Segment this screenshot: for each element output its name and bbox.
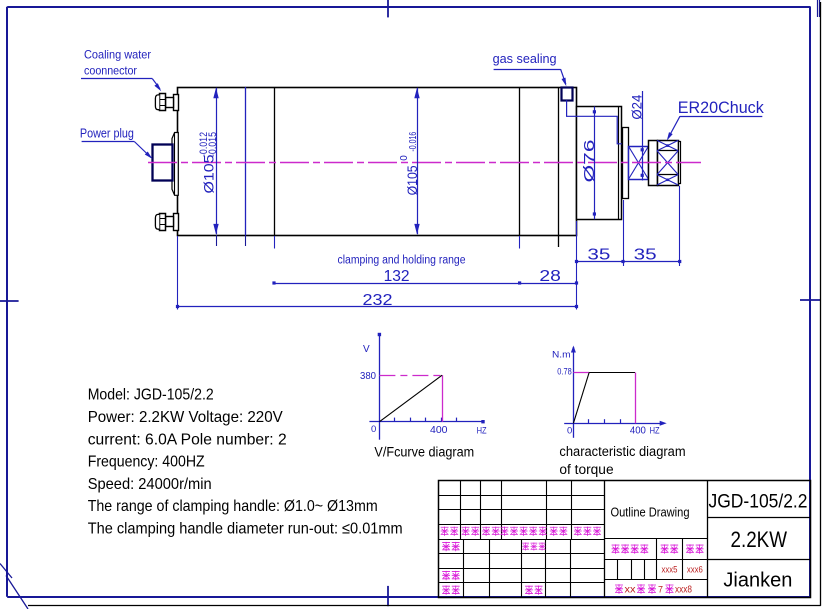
svg-text:Jianken: Jianken [723, 568, 792, 591]
bottom-left corner diagonal a [0, 564, 12, 579]
svg-text:xx: xx [625, 585, 636, 596]
dimension 132 line [274, 283, 520, 285]
svg-text:characteristic diagram: characteristic diagram [559, 444, 685, 459]
title grid hline [439, 509, 604, 511]
collet cross a [629, 147, 649, 180]
centerline axis [148, 162, 701, 164]
title header cjk row [441, 527, 449, 536]
title grid vline upper [571, 481, 573, 539]
cooling water connector fitting bottom [174, 214, 179, 231]
title row pizhun [525, 585, 533, 594]
leader ER20 chuck [680, 116, 762, 118]
collet section [629, 147, 649, 180]
left centering tick [0, 300, 19, 302]
svg-text:28: 28 [539, 268, 561, 285]
title grid vline lower [489, 539, 491, 597]
leader power plug [82, 141, 135, 143]
frame top border [7, 6, 810, 8]
torque y-axis [573, 347, 575, 438]
body end-cap line [558, 87, 560, 247]
top-right trim tick a [817, 0, 819, 17]
svg-text:35: 35 [587, 246, 610, 263]
svg-text:current: 6.0A Pole number: 2: current: 6.0A Pole number: 2 [88, 431, 287, 448]
title grid vline upper [480, 481, 482, 539]
title grid vline lower [463, 539, 465, 597]
svg-text:-0.015: -0.015 [207, 132, 219, 157]
svg-text:0.78: 0.78 [557, 367, 572, 378]
body section line blue [245, 87, 247, 235]
extension stub x274 [274, 236, 276, 249]
torque rising diagonal [573, 373, 589, 424]
VF x-axis [369, 421, 484, 423]
torque axis tick [588, 419, 590, 423]
title block outer [439, 481, 811, 598]
svg-text:clamping and holding range: clamping and holding range [338, 255, 466, 267]
svg-text:coonnector: coonnector [84, 63, 137, 77]
top centering tick [387, 0, 389, 17]
svg-text:xxx6: xxx6 [687, 565, 703, 576]
svg-text:Power: 2.2KW Voltage: 220V: Power: 2.2KW Voltage: 220V [88, 409, 283, 426]
middle zone hline1 [604, 538, 707, 540]
dimension dia105 right label [399, 132, 420, 196]
title grid hline [439, 582, 604, 584]
front cap cylinder [577, 107, 622, 220]
VF axis tick [410, 418, 412, 422]
svg-text:Coaling water: Coaling water [84, 47, 151, 61]
title grid vline lower [570, 539, 572, 597]
title grid vline upper [501, 481, 503, 539]
torque axis tick [604, 419, 606, 423]
weight cjk [661, 544, 669, 553]
VF magenta vertical 400Hz [442, 375, 444, 422]
motor body outline [178, 88, 577, 236]
gas sealing port [562, 88, 573, 101]
title grid hline [439, 495, 604, 497]
leader cooling water [81, 78, 152, 80]
VF magenta dashed 380 level [379, 375, 442, 377]
svg-text:35: 35 [634, 246, 657, 263]
svg-text:Outline Drawing: Outline Drawing [611, 505, 690, 520]
svg-text:HZ: HZ [477, 425, 487, 436]
gas passage line [567, 100, 622, 144]
title grid hline [439, 553, 604, 555]
svg-text:400: 400 [430, 425, 448, 436]
title grid hline [439, 524, 604, 526]
power plug block [153, 145, 173, 181]
svg-text:xxx8: xxx8 [675, 585, 692, 596]
title grid vline upper [546, 481, 548, 539]
svg-text:V/Fcurve diagram: V/Fcurve diagram [374, 445, 474, 460]
svg-text:Ø105: Ø105 [201, 154, 217, 193]
nut band line lower [657, 174, 678, 176]
frame bottom border [7, 596, 810, 598]
middle small cell vline [644, 559, 646, 579]
step ring [623, 128, 629, 199]
svg-text:380: 380 [360, 371, 376, 382]
VF axis tick [394, 418, 396, 422]
bottom paper edge line [28, 605, 821, 607]
dimension 28 line [520, 283, 577, 285]
top-right trim tick b [819, 0, 821, 17]
svg-text:The range of clamping handle:: The range of clamping handle: Ø1.0~ Ø13m… [88, 498, 378, 515]
dimension 35-35 line [577, 261, 680, 263]
collet cross b [629, 147, 649, 180]
nut middle band cross [657, 151, 678, 175]
frame right border [809, 7, 811, 597]
dimension 232 line [178, 306, 577, 308]
svg-text:Ø24: Ø24 [628, 94, 644, 119]
stage mark cjk [612, 544, 620, 553]
right zone hline2 [707, 559, 810, 561]
svg-text:0: 0 [567, 426, 572, 437]
title row shej [442, 542, 450, 551]
svg-text:xxx5: xxx5 [662, 565, 678, 576]
title grid hline [439, 568, 604, 570]
title grid vline lower [521, 539, 523, 597]
VF curve diagonal [379, 375, 442, 422]
torque magenta level left [573, 372, 589, 374]
title block divider 1 [604, 481, 606, 598]
middle small cell vline [631, 559, 633, 579]
svg-text:7: 7 [658, 585, 663, 595]
plug flange [172, 133, 178, 196]
svg-text:Model: JGD-105/2.2: Model: JGD-105/2.2 [88, 387, 214, 404]
nut body [658, 141, 679, 186]
dimension dia24 line [642, 91, 644, 181]
dimension dia24 label [628, 94, 644, 119]
stub below body at blue line [245, 235, 247, 246]
torque magenta vertical 400Hz [635, 373, 637, 424]
svg-text:The clamping handle diameter r: The clamping handle diameter run-out: ≤0… [88, 521, 403, 538]
svg-text:Ø105: Ø105 [404, 165, 420, 195]
extension line x680 [679, 186, 681, 266]
svg-text:132: 132 [384, 268, 410, 285]
right zone hline1 [707, 517, 810, 519]
svg-text:V: V [363, 344, 370, 355]
body section line at rear cap [519, 87, 521, 235]
svg-text:-0.016: -0.016 [407, 132, 419, 152]
nut flange [649, 141, 658, 186]
middle zone hline3 [604, 579, 707, 581]
right centering tick [800, 299, 821, 301]
stub below body at dim line [216, 235, 218, 246]
body section line at clamping range start [274, 87, 276, 235]
title grid vline lower [545, 539, 547, 597]
front cap face line [618, 106, 620, 219]
nut bottom band cross [657, 175, 678, 185]
svg-text:Power plug: Power plug [80, 127, 134, 141]
dimension dia76 line [594, 107, 596, 220]
svg-text:0: 0 [371, 424, 376, 435]
cooling water connector fitting top [174, 95, 179, 111]
scale cjk [686, 544, 694, 553]
dimension dia76 label [582, 140, 598, 183]
VF axis tick [441, 418, 443, 422]
middle zone vline1 [656, 539, 658, 580]
svg-text:400: 400 [630, 426, 646, 437]
svg-text:N.m: N.m [552, 350, 571, 361]
svg-text:Speed: 24000r/min: Speed: 24000r/min [88, 476, 212, 493]
title row gongyi [442, 585, 450, 594]
VF axis tick [456, 418, 458, 422]
sheet count row [615, 584, 623, 594]
torque x-axis [564, 423, 664, 425]
middle small cell vline [617, 559, 619, 579]
frame left border [6, 7, 8, 597]
middle zone vline2 [682, 539, 684, 580]
extension line x178 [177, 236, 179, 310]
title grid vline upper [460, 481, 462, 539]
nut band line upper [657, 150, 678, 152]
right paper edge line [820, 2, 822, 606]
extension stub x520 [519, 236, 521, 249]
dimension dia105 right line [417, 88, 419, 234]
leader gas sealing [494, 69, 561, 71]
plug flange inner line [174, 133, 176, 196]
bottom centering tick [387, 586, 389, 606]
VF axis tick [425, 418, 427, 422]
extension line x576 [576, 221, 578, 310]
svg-text:2.2KW: 2.2KW [731, 527, 788, 552]
title row biaozhunhua [522, 543, 529, 551]
svg-text:0: 0 [399, 155, 410, 161]
VF y-axis [379, 333, 381, 440]
title block divider 2 [707, 481, 709, 598]
torque axis tick [620, 419, 622, 423]
torque flat top [589, 372, 635, 374]
nut end cap [679, 142, 681, 184]
svg-text:gas sealing: gas sealing [493, 52, 557, 66]
dimension dia105 left line [216, 88, 218, 234]
svg-text:JGD-105/2.2: JGD-105/2.2 [709, 491, 808, 512]
svg-text:HZ: HZ [650, 426, 660, 437]
title grid hline [439, 539, 604, 541]
title row shenhe [442, 571, 450, 580]
dimension dia105 left label [198, 132, 219, 194]
bottom-left corner diagonal b [6, 576, 28, 609]
svg-text:of torque: of torque [559, 462, 613, 477]
svg-text:Ø76: Ø76 [582, 140, 598, 183]
svg-text:Frequency: 400HZ: Frequency: 400HZ [88, 454, 205, 471]
extension line x623 [623, 200, 625, 266]
svg-text:ER20Chuck: ER20Chuck [678, 99, 765, 117]
svg-text:232: 232 [363, 292, 393, 309]
nut top band cross [657, 140, 678, 150]
middle zone hline2 [604, 559, 707, 561]
